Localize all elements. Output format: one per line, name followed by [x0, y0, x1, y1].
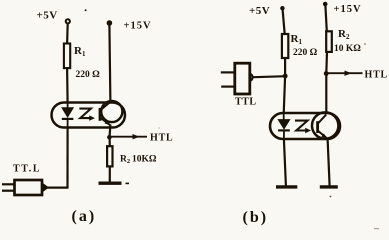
- node: emitter / R2 / HTL junction (a): [107, 135, 112, 140]
- emitter arrowhead (a): [105, 120, 111, 125]
- wire: LED cathode to ground (b): [284, 139, 286, 186]
- ground right (b): [320, 185, 338, 188]
- +5V supply terminal (b): [280, 6, 284, 10]
- wire: input node down to LED anode (b): [284, 76, 285, 114]
- TTL input connector J2 (b): [221, 63, 253, 94]
- optocoupler U1 envelope (a): [52, 103, 126, 128]
- wire: R1 bottom to optocoupler LED anode (a): [66, 68, 69, 103]
- svg-text:(a): (a): [72, 208, 97, 225]
- wire: node to R2 top (a): [108, 137, 110, 146]
- wire: R2 bottom to collector node (b): [325, 52, 328, 74]
- ink speck mid page: [158, 127, 160, 129]
- resistor R1 (a): [64, 44, 70, 69]
- wire: +5V terminal to R1 top (a): [66, 24, 69, 44]
- wire: TTL connector to cathode wire (a): [48, 187, 69, 189]
- wire: +5V terminal to R1 top (b): [283, 10, 285, 35]
- phototransistor Q1 (a): [100, 102, 111, 126]
- svg-text:+5V: +5V: [37, 10, 58, 22]
- light arrow (Z symbol) of optocoupler (b): [295, 121, 308, 131]
- phototransistor envelope circle (a): [101, 101, 122, 122]
- light arrow (Z symbol) of optocoupler (a): [79, 109, 91, 119]
- wire: emitter to ground (b): [328, 139, 330, 186]
- resistor R1 (b): [282, 34, 288, 58]
- resistor R2 (b): [326, 31, 332, 52]
- TTL input connector J1 (a): [2, 180, 49, 195]
- ink speck bottom right: [374, 228, 379, 230]
- ground left (b): [276, 185, 297, 188]
- wire: LED cathode down to TTL wire (a): [66, 128, 68, 188]
- +15V supply terminal (b): [323, 2, 328, 7]
- HTL output wire with arrow (b): [326, 71, 362, 76]
- optocoupler U2 envelope (b): [270, 113, 340, 139]
- emitter arrowhead (b): [321, 134, 327, 139]
- svg-text:TT.L: TT.L: [13, 164, 41, 175]
- svg-text:+15V: +15V: [334, 4, 362, 15]
- +5V supply terminal (a): [66, 19, 70, 23]
- ink speck above (b) R2: [364, 43, 366, 45]
- ink speck right of ground (a): [126, 182, 130, 184]
- svg-text:10 KΩ: 10 KΩ: [334, 44, 361, 54]
- wire: collector node down to phototransistor (b): [325, 74, 327, 115]
- phototransistor Q2 (b): [318, 115, 328, 139]
- wire: emitter to output node (a): [108, 125, 111, 138]
- ink speck top left area: [85, 9, 87, 11]
- svg-text:HTL: HTL: [365, 70, 389, 81]
- wire: +15V terminal to R2 top (b): [325, 6, 326, 32]
- svg-text:TTL: TTL: [235, 97, 257, 108]
- wire: R2 bottom to ground (a): [109, 166, 111, 181]
- node: collector / R2 / HTL junction (b): [324, 71, 329, 76]
- wire: R1 bottom to input node (b): [284, 58, 286, 76]
- wire: +15V terminal to phototransistor collector (a): [109, 25, 110, 103]
- HTL output wire with arrow (a): [109, 134, 147, 139]
- ground (a): [99, 181, 122, 184]
- svg-text:220 Ω: 220 Ω: [76, 70, 101, 80]
- ink speck near (b) caption: [330, 196, 332, 198]
- LED D2 of optocoupler (b): [278, 114, 290, 140]
- LED D1 of optocoupler (a): [62, 103, 74, 128]
- svg-text:+15V: +15V: [124, 20, 152, 31]
- +15V supply terminal (a): [107, 21, 111, 25]
- svg-text:(b): (b): [243, 209, 269, 226]
- wire: TTL connector to input node (b): [253, 76, 287, 77]
- svg-text:220 Ω: 220 Ω: [293, 48, 318, 58]
- svg-text:R2 10KΩ: R2 10KΩ: [120, 154, 157, 165]
- node: TTL / R1 / LED junction (b): [283, 74, 288, 79]
- svg-text:+5V: +5V: [249, 5, 270, 17]
- phototransistor envelope circle (b): [312, 112, 338, 138]
- svg-text:HTL: HTL: [150, 132, 174, 143]
- resistor R2 (a): [107, 146, 112, 166]
